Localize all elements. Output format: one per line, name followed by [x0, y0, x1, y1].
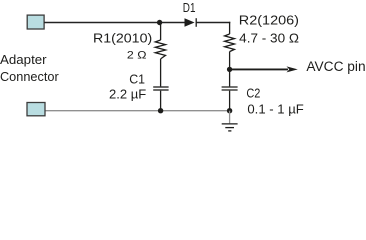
wire to ground (gray) — [229, 111, 231, 124]
node junction AVCC tap — [227, 67, 232, 72]
svg-text:0.1 - 1 µF: 0.1 - 1 µF — [247, 101, 303, 116]
wire bottom (gray) — [45, 110, 230, 112]
svg-text:R1(2010): R1(2010) — [93, 30, 152, 45]
node junction R1 top — [157, 20, 162, 25]
capacitor C1 — [153, 87, 168, 111]
ground — [222, 124, 238, 131]
svg-text:R2(1206): R2(1206) — [239, 13, 299, 28]
svg-text:4.7 - 30 Ω: 4.7 - 30 Ω — [239, 30, 299, 45]
connector pad top — [27, 15, 44, 29]
svg-text:2 Ω: 2 Ω — [127, 50, 147, 62]
node junction C1 bottom — [158, 108, 163, 113]
label Adapter Connector — [0, 52, 59, 84]
capacitor C2 — [222, 69, 238, 110]
svg-text:C2: C2 — [246, 86, 260, 101]
resistor R1 — [155, 23, 165, 87]
svg-text:D1: D1 — [183, 0, 196, 15]
node junction C2 bottom — [227, 108, 232, 113]
diode D1 — [185, 18, 197, 27]
resistor R2 — [225, 22, 235, 70]
svg-text:C1: C1 — [129, 71, 145, 86]
wire diode cathode to R2 corner — [196, 22, 230, 24]
svg-text:Connector: Connector — [0, 69, 59, 84]
svg-text:2.2 µF: 2.2 µF — [109, 87, 146, 102]
connector pad bottom — [27, 103, 45, 116]
AVCC arrow — [230, 66, 298, 72]
wire top: connector to diode anode — [44, 22, 184, 24]
svg-text:AVCC pin: AVCC pin — [306, 59, 365, 74]
svg-text:Adapter: Adapter — [0, 52, 47, 67]
